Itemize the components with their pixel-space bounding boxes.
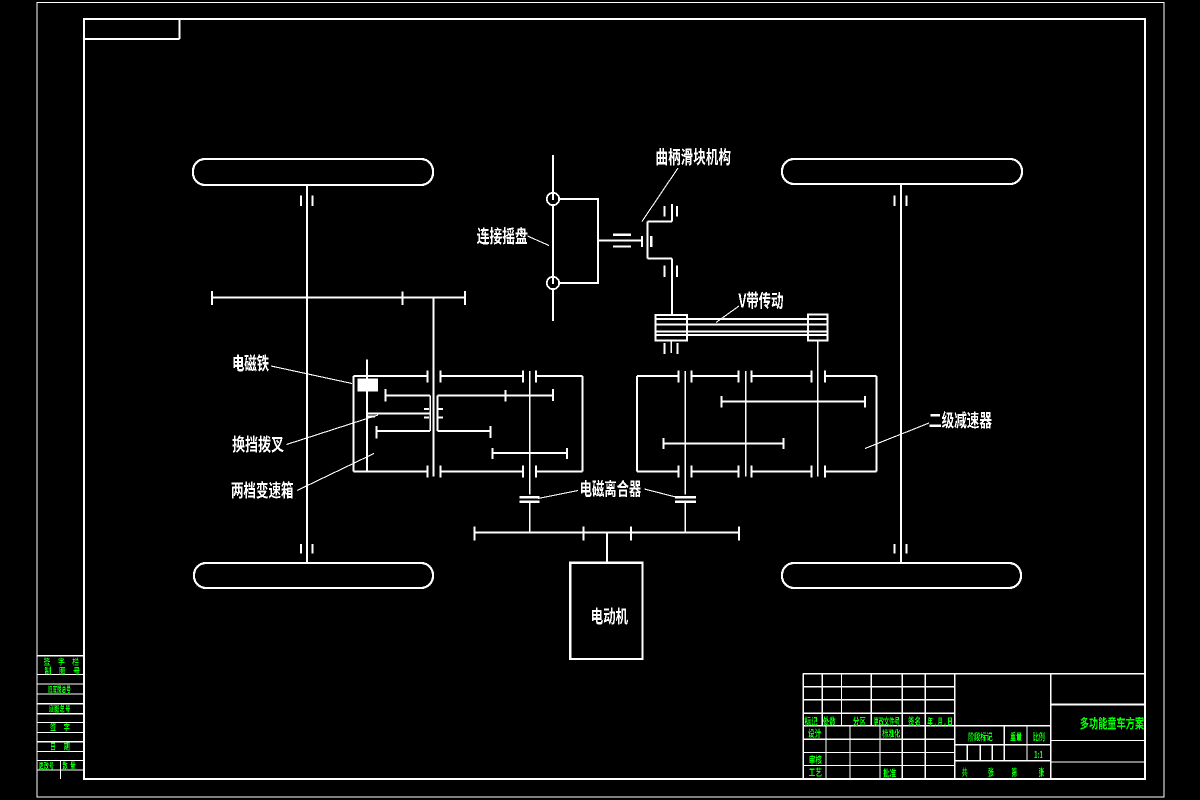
left pulley stub shaft (670, 341, 672, 354)
crank top guide ticks (665, 206, 678, 217)
electromagnet inner wall (366, 392, 368, 472)
right axle shaft (900, 184, 902, 563)
gear upper left (386, 389, 431, 401)
motor box 电动机 (570, 563, 642, 659)
right axle bearing ticks top (895, 196, 907, 207)
left axle bearing ticks top (301, 196, 313, 207)
drawing title 多功能童车方案 (1080, 717, 1144, 730)
top-left corner block (84, 19, 180, 39)
shift collar marks (424, 409, 443, 418)
label 二级减速器 (865, 411, 992, 448)
gear lower right (437, 426, 490, 438)
right pulley down shaft (817, 341, 819, 477)
sliding sleeve lines (430, 395, 437, 431)
gear on output shaft (492, 448, 567, 459)
rocker plate 连接摇盘 (553, 199, 598, 283)
title block green texts (805, 716, 1045, 777)
rocker pin circle top (547, 193, 559, 205)
left axle bearing ticks bottom (301, 544, 313, 554)
gearbox input vertical shaft (433, 298, 435, 477)
left margin green texts (39, 658, 80, 770)
motor text (592, 607, 628, 624)
wheel rear-right (782, 563, 1021, 588)
two-stage reducer housing (637, 371, 877, 478)
left pulley (656, 315, 688, 341)
label 换挡拨叉 (233, 415, 379, 453)
left axle shaft (306, 185, 308, 563)
left clutch lower shaft (529, 503, 531, 532)
label 连接摇盘 (477, 227, 549, 246)
electromagnet solid block (358, 379, 379, 392)
reducer gear lower (663, 438, 783, 449)
gear lower left (377, 426, 431, 439)
left margin signature table (37, 656, 84, 779)
gear upper right (437, 389, 553, 401)
slider block ticks (642, 236, 651, 247)
bottom cross shaft (475, 527, 740, 541)
rocker pin circle bottom (547, 277, 559, 289)
right axle bearing ticks bottom (895, 544, 907, 554)
motor shaft (606, 532, 608, 562)
title block grid (803, 674, 1145, 780)
front cross shaft (212, 291, 465, 305)
right electromagnetic clutch (675, 497, 696, 501)
crank lower guide ticks (665, 266, 678, 278)
left electromagnetic clutch (520, 497, 540, 501)
V-belt lines (656, 319, 828, 335)
electromagnet rod (366, 360, 368, 379)
rocker support shaft (552, 155, 554, 321)
right clutch lower shaft (684, 503, 686, 532)
reducer shaft 1 (684, 371, 686, 495)
wheel front-left (193, 159, 433, 185)
crank slider linkage (647, 204, 672, 315)
left pulley bearing ticks (665, 343, 678, 354)
coupling link (598, 235, 641, 247)
two-speed gearbox housing (354, 371, 583, 478)
label 电磁离合器 (538, 480, 676, 499)
label 曲柄滑块机构 (642, 148, 730, 222)
label 两档变速箱 (232, 454, 374, 499)
shift fork rod (367, 414, 430, 417)
reducer shaft 2 (745, 371, 747, 477)
label 电磁铁 (233, 354, 352, 383)
right pulley (808, 315, 828, 341)
gearbox output shaft (529, 371, 531, 495)
wheel front-right (782, 159, 1022, 184)
reducer gear upper (722, 396, 865, 407)
wheel rear-left (194, 563, 433, 588)
label V带传动 (716, 292, 783, 323)
